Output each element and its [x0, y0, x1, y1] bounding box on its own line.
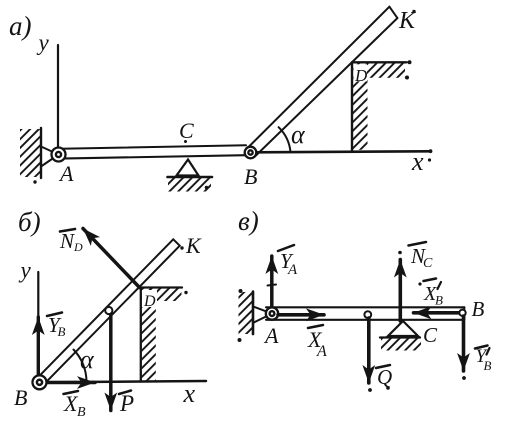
beam AB	[60, 145, 246, 158]
svg-text:α: α	[80, 345, 95, 374]
svg-text:C: C	[423, 323, 438, 347]
load point circle on beam (b)	[105, 307, 112, 314]
pin bracket at A	[41, 147, 59, 167]
label X_B	[64, 391, 79, 394]
pin A	[52, 148, 66, 162]
svg-text:C: C	[179, 118, 194, 143]
force X_A	[278, 313, 324, 317]
svg-text:B: B	[244, 164, 257, 189]
pin A (v)	[266, 307, 278, 319]
svg-text:C: C	[423, 256, 433, 271]
angle arc alpha (b)	[74, 350, 87, 383]
label X'_B	[418, 282, 421, 285]
wall support at A	[40, 128, 42, 178]
svg-text:D: D	[143, 293, 156, 310]
angle arc alpha (a)	[279, 127, 291, 152]
y-axis	[57, 45, 59, 146]
svg-text:A: A	[58, 161, 74, 186]
svg-text:Q: Q	[377, 365, 392, 389]
label P	[119, 391, 131, 395]
label D (a)	[354, 64, 368, 81]
roller support C (v)	[388, 321, 418, 336]
svg-text:B: B	[435, 293, 443, 308]
y-axis (b)	[37, 272, 39, 380]
label N_C	[409, 242, 427, 246]
ledge corner D (a)	[352, 61, 407, 63]
svg-text:y: y	[37, 30, 50, 55]
svg-text:A: A	[316, 343, 327, 360]
force Y_B	[37, 317, 40, 378]
wall support at A (v)	[252, 292, 255, 335]
label K (b)	[180, 246, 183, 249]
ledge corner D (b)	[140, 286, 183, 288]
label Y'_B	[475, 346, 488, 349]
svg-text:x: x	[183, 379, 196, 408]
svg-text:A: A	[263, 323, 279, 348]
force X'_B	[414, 311, 462, 315]
svg-text:б): б)	[18, 207, 41, 237]
pin bracket at A (v)	[253, 306, 272, 323]
svg-text:B: B	[77, 405, 86, 420]
label Y_A	[278, 245, 294, 251]
force N_C	[398, 260, 402, 322]
x-axis (a)	[257, 151, 430, 152]
svg-text:B: B	[484, 358, 492, 373]
svg-text:B: B	[472, 297, 485, 321]
force Y'_B	[462, 316, 466, 371]
beam BK (b)	[36, 239, 180, 385]
svg-text:x: x	[411, 147, 424, 176]
label D (b)	[142, 290, 157, 307]
pin B (b)	[33, 375, 47, 389]
svg-text:в): в)	[238, 206, 259, 236]
joint circle B (v)	[459, 310, 465, 316]
force Y_A	[270, 256, 274, 306]
load point circle on beam (v)	[364, 311, 371, 318]
svg-text:α: α	[291, 120, 306, 149]
svg-text:B: B	[14, 385, 27, 410]
pin B	[245, 147, 257, 159]
svg-text:P: P	[119, 391, 134, 416]
force X_B	[46, 381, 95, 385]
label N_D	[60, 229, 75, 232]
label Q	[376, 365, 390, 368]
beam BK	[247, 7, 398, 157]
label X_A	[308, 325, 323, 328]
force P	[109, 315, 113, 411]
svg-text:A: A	[287, 262, 298, 278]
label Y_B	[47, 313, 62, 317]
beam AB (v)	[266, 307, 464, 320]
roller support C	[177, 160, 199, 176]
svg-text:D: D	[354, 66, 368, 85]
svg-text:N: N	[59, 229, 75, 253]
force Q	[367, 318, 371, 383]
force N_D	[83, 229, 140, 288]
svg-text:y: y	[19, 258, 32, 283]
svg-text:B: B	[58, 324, 66, 339]
svg-text:а): а)	[9, 11, 32, 41]
svg-text:K: K	[185, 233, 202, 258]
x-axis (b)	[46, 381, 206, 382]
svg-text:D: D	[73, 240, 83, 254]
